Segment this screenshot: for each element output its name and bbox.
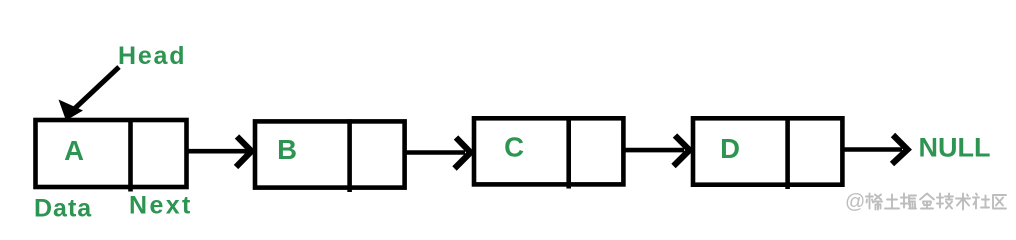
svg-text:C: C [504, 132, 524, 163]
svg-text:Head: Head [118, 42, 186, 70]
svg-text:Data: Data [34, 195, 92, 223]
svg-text:NULL: NULL [919, 133, 991, 163]
svg-text:B: B [277, 134, 297, 165]
svg-text:Next: Next [129, 192, 193, 220]
svg-text:@: @ [845, 191, 865, 213]
svg-text:D: D [720, 133, 740, 164]
svg-text:A: A [64, 135, 84, 166]
